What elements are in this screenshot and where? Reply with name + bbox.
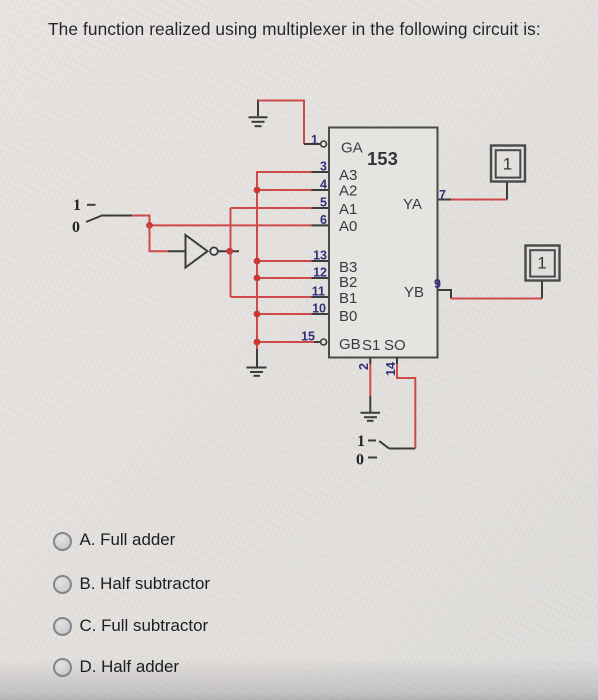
svg-text:A1: A1 <box>339 201 357 218</box>
wire pin 6 (A0) <box>150 224 312 226</box>
svg-text:153: 153 <box>367 148 398 169</box>
wire pin 15 (GB) <box>257 341 314 343</box>
pin number 7 <box>439 188 446 202</box>
U1 pin name A2 <box>339 183 357 200</box>
SW2 contact dash for 1 <box>368 440 376 442</box>
vertical bus line 1 <box>256 172 258 349</box>
U1 pin name GB <box>339 336 361 353</box>
option A radio <box>53 532 72 551</box>
pin number 3 <box>320 160 327 174</box>
node dot pin10 on bus line 1 <box>254 311 261 318</box>
pin number 14 (rotated) <box>384 362 398 376</box>
pin 11 stub <box>312 296 330 298</box>
switch SW2 label 0 <box>356 452 364 469</box>
pin 3 stub <box>312 171 330 173</box>
pin 1 black stub <box>304 143 321 145</box>
svg-text:GA: GA <box>341 140 363 157</box>
wire junction J1 down to inverter input <box>150 225 169 251</box>
YA wire riser to probe P1 <box>506 182 508 200</box>
wire pin 12 (B2) <box>257 277 312 279</box>
pin number 12 <box>313 266 327 280</box>
logic probe P2 box <box>526 246 560 281</box>
inverter input black stub <box>168 250 185 252</box>
svg-text:B2: B2 <box>339 274 357 291</box>
inverter output black stub <box>218 250 239 252</box>
pin 1 inversion bubble <box>321 141 327 147</box>
U1 pin name GA <box>341 140 363 157</box>
multiplexer U1 74153 body <box>329 128 438 358</box>
SW2 lever arm to contact 1 <box>379 441 389 449</box>
node dot pin13 on bus line 1 <box>254 258 261 265</box>
SW2 common black wire <box>389 448 415 450</box>
U1 pin name S0 <box>384 337 406 354</box>
U1 pin name B2 <box>339 274 357 291</box>
bus line 1 black stem to ground <box>256 349 258 367</box>
U1 pin name B3 <box>339 259 357 276</box>
pin number 5 <box>320 196 327 210</box>
option A text <box>80 530 176 550</box>
YA output black stub pin 7 <box>438 199 452 201</box>
pin number 1 <box>311 133 318 147</box>
option B radio <box>53 575 72 594</box>
option C text <box>80 616 209 636</box>
pin number 2 (rotated) <box>357 363 371 370</box>
svg-text:1: 1 <box>503 155 512 174</box>
title text <box>48 19 541 40</box>
SW1 lever arm <box>86 216 132 223</box>
ground G2 (below bus line 1) <box>247 368 267 376</box>
pin 4 stub <box>312 189 330 191</box>
vertical bus line 2 (inverter output net) <box>230 208 232 297</box>
wire pin 4 (A2) <box>257 189 312 191</box>
U1 pin name B0 <box>339 308 357 325</box>
inverter U2 (NOT gate) <box>186 235 208 268</box>
svg-text:9: 9 <box>434 277 441 291</box>
YB output red wire <box>451 298 542 300</box>
svg-text:1: 1 <box>73 197 81 214</box>
svg-text:A0: A0 <box>339 218 357 235</box>
svg-text:GB: GB <box>339 336 361 353</box>
U1 pin name A0 <box>339 218 357 235</box>
svg-text:B1: B1 <box>339 290 357 307</box>
pin 5 stub <box>312 207 330 209</box>
switch SW2 label 1 <box>357 433 365 450</box>
U1 pin name YB <box>404 284 424 301</box>
svg-text:1: 1 <box>537 254 546 273</box>
U1 pin name B1 <box>339 290 357 307</box>
svg-text:A2: A2 <box>339 183 357 200</box>
pin number 10 <box>312 302 326 316</box>
option D radio <box>53 658 72 677</box>
wire pin 5 (A1) <box>231 207 312 209</box>
pin 13 stub <box>312 260 330 262</box>
YB wire riser to probe P2 <box>541 281 543 299</box>
wire pin 11 (B1) <box>231 296 312 298</box>
pin number 11 <box>312 285 325 299</box>
option B text <box>80 574 210 594</box>
S0 wire from pin 14 to switch SW2 <box>396 358 398 365</box>
U1 label 153 <box>367 148 398 169</box>
pin number 6 <box>320 213 327 227</box>
pin 6 stub <box>312 224 330 226</box>
pin 10 stub <box>312 313 330 315</box>
node dot pin15 on bus line 1 <box>254 339 261 346</box>
S1 black stem to ground <box>369 396 371 412</box>
svg-text:1: 1 <box>357 433 365 450</box>
S1 wire down from pin 2 <box>369 358 371 365</box>
SW1 contact dash for 1 <box>87 204 96 206</box>
probe P2 value 1 <box>537 254 546 273</box>
wire pin 3 (A3) <box>256 171 312 173</box>
svg-text:0: 0 <box>72 219 80 236</box>
U1 pin name A3 <box>339 167 357 184</box>
logic probe P1 box <box>491 146 525 182</box>
node J1 junction dot (switch/A0/inverter) <box>146 222 153 229</box>
svg-text:A3: A3 <box>339 167 357 184</box>
node dot pin12 on bus line 1 <box>254 275 261 282</box>
U1 pin name A1 <box>339 201 357 218</box>
SW2 contact dash for 0 <box>368 457 377 459</box>
node J2 junction dot (inverter output on bus line 2) <box>226 248 233 255</box>
option D text <box>80 657 180 677</box>
svg-text:B0: B0 <box>339 308 357 325</box>
wire from ground G1 to pin 1 <box>258 101 304 145</box>
pin 12 stub <box>312 277 330 279</box>
wire pin 13 (B3) <box>257 260 312 262</box>
YA output red wire <box>451 199 507 201</box>
YB output black stub pin 9 <box>438 290 452 299</box>
svg-text:YA: YA <box>403 196 422 213</box>
pin number 9 <box>434 277 441 291</box>
pin number 4 <box>320 178 327 192</box>
svg-text:S1: S1 <box>362 337 380 354</box>
node dot pin4 on bus line 1 <box>254 187 261 194</box>
svg-text:2: 2 <box>357 363 371 370</box>
input switch SW1 label 0 <box>72 219 80 236</box>
ground G1 (top, near GA) <box>249 100 268 127</box>
probe P1 value 1 <box>503 155 512 174</box>
pin 15 inversion bubble <box>321 339 327 345</box>
pin 15 stub <box>314 341 321 343</box>
wire pin 10 (B0) <box>257 313 312 315</box>
option C radio <box>53 617 72 636</box>
pin number 15 <box>301 330 315 344</box>
svg-text:14: 14 <box>384 362 398 376</box>
ground G3 (below S1) <box>361 413 381 421</box>
U1 pin name YA <box>403 196 422 213</box>
svg-text:SO: SO <box>384 337 406 354</box>
inverter U2 output bubble <box>210 247 218 255</box>
U1 pin name S1 <box>362 337 380 354</box>
pin number 13 <box>313 249 327 263</box>
svg-text:0: 0 <box>356 452 364 469</box>
svg-text:YB: YB <box>404 284 424 301</box>
input switch SW1 label 1 <box>73 197 81 214</box>
SW1 output wire to junction <box>132 216 150 226</box>
